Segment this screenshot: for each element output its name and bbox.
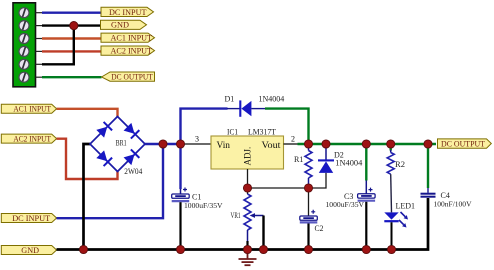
diode D1 lead right — [251, 108, 266, 110]
svg-text:LM317T: LM317T — [248, 127, 276, 136]
output rail wire (green) — [298, 143, 437, 145]
svg-text:DC OUTPUT: DC OUTPUT — [441, 140, 485, 149]
node: output junction C (C3) — [362, 140, 370, 148]
flag AC1 INPUT (left) — [1, 104, 56, 113]
wire AC2 to bridge bottom (red) — [57, 139, 118, 179]
svg-text:VR1: VR1 — [231, 211, 241, 220]
LED1 cathode bar — [384, 220, 398, 222]
potentiometer VR1 — [244, 188, 251, 250]
svg-text:AC2 INPUT: AC2 INPUT — [13, 135, 51, 144]
node: ADJ junction (R1/C2) — [304, 184, 312, 192]
svg-text:DC INPUT: DC INPUT — [12, 214, 50, 223]
svg-text:2W04: 2W04 — [124, 167, 142, 176]
svg-text:1N4004: 1N4004 — [259, 94, 285, 103]
svg-text:D1: D1 — [225, 94, 235, 103]
node: ground bus at VR1 — [243, 245, 251, 253]
wire: terminal 4 to AC2 INPUT flag (red) — [42, 50, 101, 52]
node: ground bus at LED1 — [387, 245, 395, 253]
diode D1 triangle — [241, 101, 251, 116]
node: input junction (DC INPUT branch) — [159, 140, 167, 148]
resistor R2 — [387, 144, 394, 212]
wire: terminal 2 to GND flag (black) — [42, 24, 101, 26]
capacitor C1 — [172, 144, 190, 250]
ground bus wire (black) — [57, 198, 429, 250]
capacitor C2 — [300, 188, 318, 250]
node: output junction A (D1/R1) — [304, 140, 312, 148]
VR1 wiper arrow — [250, 213, 264, 218]
connector J1 screw terminals — [19, 8, 29, 83]
node: ground bus at C2 — [304, 245, 312, 253]
node: output junction B (D2) — [322, 140, 330, 148]
svg-text:BR1: BR1 — [116, 139, 127, 148]
svg-text:LED1: LED1 — [396, 201, 416, 210]
svg-text:1000uF/35V: 1000uF/35V — [326, 200, 365, 209]
wire bridge minus to ground bus (black) — [84, 144, 91, 250]
node: ground bus at C3 — [362, 245, 370, 253]
svg-text:DC INPUT: DC INPUT — [109, 8, 147, 17]
wire input node up to D1 (blue) — [181, 109, 228, 144]
wire: terminal 6 to DC OUTPUT flag (green) — [42, 76, 102, 78]
svg-text:C2: C2 — [315, 224, 324, 233]
node: ground bus at wiper — [259, 245, 267, 253]
ground symbol — [239, 251, 257, 265]
flag AC2 INPUT (top) — [101, 46, 155, 56]
connector J1 terminal block body — [13, 3, 36, 87]
bridge rectifier BR1 body — [90, 117, 145, 172]
flag AC1 INPUT (top) — [101, 33, 155, 43]
node: ground bus at C1 — [176, 245, 184, 253]
svg-text:GND: GND — [111, 21, 129, 30]
connector pin stubs — [36, 13, 43, 78]
wire: terminal 5 up to GND wire (black) — [42, 26, 74, 65]
svg-text:R2: R2 — [395, 160, 405, 169]
wire bridge plus to IC (blue) — [145, 143, 184, 145]
bridge diode left-bottom — [96, 150, 112, 166]
wire VR1 wiper to ground bus (black) — [262, 216, 264, 250]
flag DC OUTPUT (right) — [438, 139, 492, 149]
capacitor C3 — [358, 144, 376, 250]
pin wire ADJ (thin) — [247, 169, 249, 188]
pin wire Vout (thin) — [284, 143, 300, 145]
node: ADJ junction (VR1) — [243, 184, 251, 192]
bridge diode left-top — [96, 122, 112, 138]
svg-text:AC1 INPUT: AC1 INPUT — [13, 105, 51, 114]
node: output junction E (C4) — [424, 140, 432, 148]
wire AC1 to bridge top (orange) — [57, 109, 118, 117]
LED1 triangle — [384, 212, 398, 219]
diode D2 lead bottom to ADJ line — [309, 173, 327, 188]
diode D2 lead top — [325, 145, 327, 160]
svg-text:2: 2 — [291, 135, 295, 144]
svg-text:AC2 INPUT: AC2 INPUT — [111, 47, 153, 56]
LED1 arrow 1 — [401, 212, 409, 220]
node: input junction (D1/C1 branch) — [176, 140, 184, 148]
bridge diode bottom-right — [123, 149, 139, 165]
LED1 arrow 2 — [399, 220, 407, 228]
svg-text:1000uF/35V: 1000uF/35V — [184, 201, 223, 210]
LED1 lead to ground bus — [391, 222, 393, 249]
resistor R1 — [305, 145, 312, 187]
wire: terminal 3 to AC1 INPUT flag (orange) — [42, 37, 101, 39]
svg-text:DC OUTPUT: DC OUTPUT — [111, 72, 153, 81]
wire: terminal 1 to DC INPUT flag (blue) — [42, 11, 101, 13]
diode D2 cathode bar — [318, 159, 334, 161]
flag DC INPUT (left) — [1, 214, 56, 224]
svg-text:ADJ.: ADJ. — [243, 147, 253, 166]
diode D1 cathode bar — [239, 100, 241, 116]
op-amp regulator IC1 body — [211, 136, 284, 169]
flag GND (top) — [101, 20, 147, 30]
svg-text:Vin: Vin — [217, 140, 231, 150]
node: output junction D (R2) — [387, 140, 395, 148]
svg-text:R1: R1 — [294, 155, 303, 164]
svg-text:3: 3 — [195, 135, 199, 144]
svg-text:Vout: Vout — [262, 140, 282, 150]
bridge diode top-right — [123, 122, 139, 138]
diode D2 triangle — [319, 161, 333, 173]
svg-text:IC1: IC1 — [227, 127, 238, 136]
capacitor C4 — [421, 144, 436, 197]
wire DC INPUT to input node (blue) — [57, 144, 164, 218]
flag GND (left) — [1, 246, 56, 256]
wire D1 to output node (green) — [265, 109, 309, 144]
flag DC OUTPUT (top) — [102, 72, 155, 81]
svg-text:AC1 INPUT: AC1 INPUT — [111, 34, 153, 43]
svg-text:100nF/100V: 100nF/100V — [434, 199, 473, 208]
node: ground bus at bridge — [79, 245, 87, 253]
junction on GND wire at terminal block — [70, 22, 78, 30]
svg-text:1N4004: 1N4004 — [335, 159, 362, 168]
diode D1 lead left — [227, 108, 240, 110]
pin wire Vin (thin) — [184, 143, 211, 145]
flag DC INPUT (top) — [101, 7, 154, 16]
svg-text:GND: GND — [21, 246, 39, 255]
ADJ net wire to VR1 (thin black) — [248, 187, 309, 189]
flag AC2 INPUT (left) — [1, 134, 56, 143]
